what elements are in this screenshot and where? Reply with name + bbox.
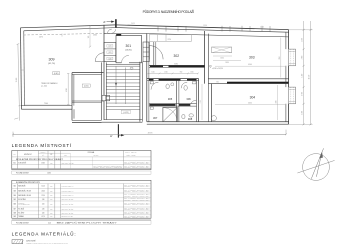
svg-text:PV: PV xyxy=(51,154,53,156)
svg-text:13,85: 13,85 xyxy=(41,162,45,164)
svg-text:3NP: 3NP xyxy=(50,209,53,211)
svg-text:(3,5): (3,5) xyxy=(108,52,112,54)
svg-text:3NP: 3NP xyxy=(50,162,53,164)
svg-text:1 450: 1 450 xyxy=(302,74,304,78)
svg-text:A': A' xyxy=(103,20,106,24)
svg-text:1100: 1100 xyxy=(151,71,154,73)
svg-text:1600: 1600 xyxy=(220,58,224,60)
svg-text:41,0: 41,0 xyxy=(48,222,51,224)
svg-text:308: 308 xyxy=(13,212,15,214)
svg-text:305: 305 xyxy=(168,97,173,101)
svg-text:12 460: 12 460 xyxy=(16,78,18,83)
svg-text:305: 305 xyxy=(13,199,15,201)
svg-text:2430: 2430 xyxy=(225,62,229,64)
svg-text:(1,5): (1,5) xyxy=(108,46,112,48)
svg-text:301: 301 xyxy=(13,162,16,164)
svg-text:3NP: 3NP xyxy=(50,190,53,192)
svg-text:(13,85): (13,85) xyxy=(125,50,132,52)
svg-text:3NP: 3NP xyxy=(50,204,53,206)
svg-text:LEGENDA MATERIÁLŮ:: LEGENDA MATERIÁLŮ: xyxy=(12,230,76,236)
svg-text:2 425: 2 425 xyxy=(131,23,135,25)
svg-text:303: 303 xyxy=(13,190,15,192)
svg-text:302: 302 xyxy=(174,54,180,58)
svg-text:(+3,25): (+3,25) xyxy=(123,112,129,114)
svg-text:307: 307 xyxy=(13,209,15,211)
svg-text:(4,60): (4,60) xyxy=(54,73,59,75)
svg-text:3 900: 3 900 xyxy=(302,92,304,96)
svg-text:LEGENDA MÍSTNOSTÍ: LEGENDA MÍSTNOSTÍ xyxy=(12,142,72,148)
svg-text:41,70: 41,70 xyxy=(41,216,45,218)
svg-text:2860: 2860 xyxy=(279,56,281,59)
svg-text:309: 309 xyxy=(13,216,15,218)
svg-text:3NP: 3NP xyxy=(50,186,53,188)
svg-text:POVRCH: POVRCH xyxy=(94,155,99,157)
svg-text:2100: 2100 xyxy=(164,71,167,73)
svg-text:3,40: 3,40 xyxy=(42,212,45,214)
svg-text:3,10: 3,10 xyxy=(42,204,45,206)
svg-text:2075: 2075 xyxy=(39,37,43,39)
svg-text:2750: 2750 xyxy=(168,39,172,41)
svg-text:304: 304 xyxy=(13,195,15,197)
svg-text:±3,260 = 262,30: ±3,260 = 262,30 xyxy=(212,68,223,70)
svg-text:3080: 3080 xyxy=(174,64,178,66)
svg-text:3 900: 3 900 xyxy=(302,55,304,59)
svg-text:4980: 4980 xyxy=(66,88,68,92)
svg-text:2480: 2480 xyxy=(275,100,277,103)
svg-text:(+1,100): (+1,100) xyxy=(41,85,47,87)
svg-text:SPOLEČNÉ PROSTORY PRO CELÝ OBJ: SPOLEČNÉ PROSTORY PRO CELÝ OBJEKT xyxy=(16,158,64,161)
svg-text:2,90: 2,90 xyxy=(42,209,45,211)
svg-text:(4,50): (4,50) xyxy=(84,86,89,88)
svg-text:302: 302 xyxy=(13,186,15,188)
svg-text:306: 306 xyxy=(186,97,191,101)
svg-text:3NP: 3NP xyxy=(50,212,53,214)
svg-text:303: 303 xyxy=(249,56,255,60)
svg-text:3NP: 3NP xyxy=(50,199,53,201)
svg-text:4900: 4900 xyxy=(248,64,252,66)
svg-text:KOMERČNÍ PROSTORY: KOMERČNÍ PROSTORY xyxy=(16,181,41,184)
svg-text:4650: 4650 xyxy=(248,102,252,104)
svg-text:14 620: 14 620 xyxy=(309,75,311,80)
svg-text:1600: 1600 xyxy=(190,71,193,73)
svg-text:(1,6): (1,6) xyxy=(108,58,112,60)
svg-text:7500: 7500 xyxy=(44,103,48,105)
svg-text:900: 900 xyxy=(180,71,183,73)
svg-text:24,60: 24,60 xyxy=(41,190,45,192)
svg-text:1 525: 1 525 xyxy=(200,100,202,104)
svg-text:3NP: 3NP xyxy=(50,195,53,197)
svg-text:14,20: 14,20 xyxy=(41,186,45,188)
svg-text:13,85: 13,85 xyxy=(47,172,51,174)
svg-text:2 300: 2 300 xyxy=(302,111,304,115)
svg-text:3NP: 3NP xyxy=(50,216,53,218)
svg-text:A': A' xyxy=(110,134,113,138)
svg-text:309: 309 xyxy=(49,58,55,62)
svg-text:PŮDORYS 3. NADZEMNÍHO PODLAŽÍ: PŮDORYS 3. NADZEMNÍHO PODLAŽÍ xyxy=(143,9,195,14)
svg-text:308: 308 xyxy=(188,117,193,121)
svg-text:307: 307 xyxy=(153,116,158,120)
svg-text:2,60: 2,60 xyxy=(42,199,45,201)
svg-text:21,30: 21,30 xyxy=(41,195,45,197)
svg-text:306: 306 xyxy=(13,204,15,206)
svg-text:1 100: 1 100 xyxy=(302,38,304,42)
svg-text:304: 304 xyxy=(250,96,256,100)
svg-text:301: 301 xyxy=(126,44,132,48)
svg-text:900: 900 xyxy=(88,36,90,39)
svg-text:900: 900 xyxy=(216,81,219,83)
svg-text:28 870: 28 870 xyxy=(148,132,153,134)
svg-text:2 100: 2 100 xyxy=(260,27,264,29)
svg-text:1 850: 1 850 xyxy=(203,25,207,27)
svg-text:(41,70): (41,70) xyxy=(48,63,55,65)
svg-text:2365: 2365 xyxy=(93,35,97,37)
